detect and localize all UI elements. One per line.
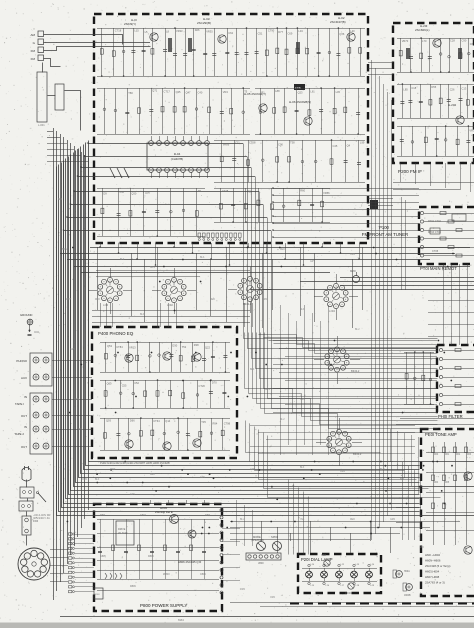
ferrite bead FTB marker — [294, 84, 305, 90]
svg-text:CT18: CT18 — [115, 29, 122, 33]
svg-text:C803: C803 — [140, 514, 146, 517]
svg-text:GRN: GRN — [250, 469, 255, 471]
wire main horizontal bus group — [89, 141, 474, 462]
svg-text:J-I0I: J-I0I — [103, 303, 108, 307]
svg-text:L56: L56 — [120, 190, 125, 194]
svg-text:H80I: H80I — [321, 554, 326, 557]
wire AC plug to filters — [26, 480, 28, 488]
wire balun feed — [42, 63, 44, 73]
lamp L204 — [351, 571, 358, 578]
svg-text:D26: D26 — [195, 28, 200, 32]
connector pads row P100 bottom — [198, 233, 201, 238]
svg-text:BRN: BRN — [265, 389, 270, 391]
svg-text:AM: AM — [31, 33, 36, 37]
ground terminal upper — [27, 319, 33, 325]
svg-text:RT03 CT03: RT03 CT03 — [428, 231, 441, 234]
svg-text:GROUND: GROUND — [20, 313, 32, 317]
transistor H-402 circle — [163, 352, 171, 360]
FM IF first component row — [397, 38, 474, 40]
svg-text:J800C: J800C — [345, 592, 352, 595]
svg-text:R63: R63 — [467, 454, 472, 456]
svg-text:GRY: GRY — [70, 349, 75, 351]
svg-text:Q30: Q30 — [131, 191, 136, 195]
svg-text:GRY: GRY — [130, 494, 135, 496]
transistor H-405 circle — [163, 442, 171, 450]
tuner bottom-left component row — [97, 188, 205, 190]
svg-text:BLK: BLK — [200, 257, 205, 259]
diode bridge D801 — [105, 573, 107, 576]
svg-text:BLK: BLK — [400, 479, 405, 481]
wire PT01 to PH01 verticals — [443, 264, 445, 345]
svg-text:BLU: BLU — [240, 519, 245, 521]
transistor H806 2SC945 circle — [188, 530, 196, 538]
svg-text:T38: T38 — [290, 141, 295, 145]
wire staircase mesh upper middle — [245, 333, 438, 413]
transistor H-202 circle — [456, 116, 464, 124]
svg-text:CT84: CT84 — [116, 345, 123, 349]
svg-text:J-I04: J-I04 — [329, 309, 335, 313]
capacitor C801 big — [94, 588, 103, 599]
dark component L-07 — [370, 200, 378, 209]
svg-text:IN: IN — [24, 395, 27, 399]
lamp L203 — [336, 571, 343, 578]
svg-text:2SD330 Del E: 2SD330 Del E — [155, 510, 173, 514]
phono eq upper component row — [100, 342, 230, 344]
FM IF third component row — [397, 126, 474, 128]
svg-text:R60: R60 — [434, 454, 439, 456]
svg-text:M20I: M20I — [350, 269, 356, 273]
fuse F601 — [22, 516, 31, 535]
antenna terminal FM2 — [38, 55, 44, 61]
antenna terminal AM — [38, 31, 44, 37]
svg-text:TAPE 2: TAPE 2 — [14, 432, 24, 436]
svg-text:T80: T80 — [128, 91, 133, 95]
wire bus corners to lamp board — [288, 480, 290, 555]
svg-text:C805: C805 — [100, 555, 106, 558]
svg-text:L20: L20 — [350, 29, 355, 33]
wire bus middle vertical group — [244, 144, 438, 339]
transistor H605 circle — [464, 546, 472, 554]
block PH01 FILTER dashed border — [437, 345, 474, 412]
svg-text:BLU: BLU — [380, 469, 385, 471]
block P400 PHONO EQ dashed border — [92, 327, 237, 458]
svg-text:2SKI9(Y): 2SKI9(Y) — [124, 22, 136, 26]
svg-text:BLK: BLK — [250, 369, 255, 371]
svg-text:BLK: BLK — [120, 259, 125, 261]
svg-text:VR37: VR37 — [469, 128, 474, 132]
wire ring leads — [88, 290, 97, 292]
svg-text:FM: FM — [31, 49, 36, 53]
connector ring J104 — [324, 283, 348, 308]
svg-text:L99: L99 — [360, 141, 365, 145]
svg-text:Q23: Q23 — [298, 91, 303, 95]
PE01 component columns — [433, 442, 435, 545]
line filter L601 — [20, 487, 34, 498]
svg-text:L15: L15 — [134, 28, 139, 32]
connector ring J101 — [98, 277, 122, 302]
block P100 FM FRONT AM TUNER dashed border — [94, 14, 368, 243]
transistor H-01 2SK19 circle — [150, 33, 158, 41]
svg-text:GRY: GRY — [200, 477, 205, 479]
filter input components — [404, 352, 434, 354]
wire bottom long rule — [60, 616, 474, 618]
wire feeds left of PE01 — [402, 462, 404, 540]
svg-text:R80I: R80I — [100, 514, 105, 517]
wire rails bottom middle — [230, 521, 460, 523]
svg-text:T35: T35 — [201, 420, 206, 424]
PT01 small rects — [452, 214, 466, 221]
transistor H-406 circle — [193, 439, 201, 447]
block P201 DIAL LAMP dashed border — [298, 554, 381, 593]
svg-text:L85: L85 — [403, 88, 408, 92]
power switch S601 — [38, 493, 46, 502]
svg-text:CT05: CT05 — [432, 250, 439, 253]
IF transformer T103 coil — [296, 42, 298, 54]
svg-text:H-06 2SC828(S): H-06 2SC828(S) — [289, 100, 311, 104]
svg-text:T52: T52 — [182, 345, 187, 349]
wire feeds to PH01 — [273, 340, 437, 342]
svg-text:GRN: GRN — [262, 299, 267, 301]
svg-text:OUT: OUT — [21, 445, 27, 449]
svg-text:C0I2: C0I2 — [34, 332, 40, 334]
block P200 FM IF dashed border — [393, 23, 474, 163]
wire pads to P800 — [75, 534, 94, 536]
jack J900B circle — [406, 584, 413, 591]
mode switch circle — [257, 542, 266, 551]
svg-text:R62: R62 — [456, 454, 461, 456]
svg-text:R1: R1 — [261, 90, 265, 94]
svg-text:VR70: VR70 — [402, 39, 409, 43]
jack TAPE1 OUT — [33, 412, 39, 418]
svg-text:GRN: GRN — [74, 399, 79, 401]
svg-text:2SC29I(B): 2SC29I(B) — [197, 21, 211, 25]
svg-text:2SCI328 (5 or Tar(p): 2SCI328 (5 or Tar(p) — [425, 564, 451, 568]
svg-text:WHT: WHT — [110, 469, 116, 471]
svg-text:6963: 6963 — [178, 618, 184, 622]
jack PHONO — [33, 357, 39, 363]
IC H-04 bottom pin circles — [149, 168, 154, 173]
svg-text:CT28: CT28 — [222, 189, 229, 193]
connector strip P800 right edge — [220, 509, 223, 512]
jack AUX — [33, 374, 39, 380]
transistor H601 circle — [464, 472, 472, 480]
phono eq middle row — [100, 380, 230, 382]
svg-text:P400 PHONO EQ: P400 PHONO EQ — [98, 331, 134, 336]
svg-text:C90: C90 — [278, 143, 283, 147]
balun transformer L001 — [37, 72, 47, 122]
variable capacitor arrows — [110, 168, 115, 178]
svg-text:Q14: Q14 — [165, 419, 170, 423]
svg-text:H607,H608: H607,H608 — [425, 575, 440, 579]
jack TAPE2 IN — [33, 426, 39, 432]
svg-text:RED: RED — [150, 474, 155, 476]
transistor H-06 2SC828 circle — [304, 117, 312, 125]
svg-text:(CH4II7B): (CH4II7B) — [171, 157, 184, 161]
transistor H-201 2SC829 circle — [433, 39, 441, 47]
transistor H-401 circle — [125, 354, 133, 362]
wire extra rails below tuner — [96, 270, 250, 272]
wire bottom dashed segment — [290, 603, 474, 605]
svg-text:D9: D9 — [103, 192, 107, 196]
wire P200 to PT01 verticals — [400, 163, 402, 182]
svg-text:C13: C13 — [462, 86, 467, 90]
svg-text:R805: R805 — [148, 555, 154, 558]
svg-text:Q93: Q93 — [106, 419, 111, 423]
svg-text:C28: C28 — [450, 39, 455, 43]
svg-text:C51: C51 — [258, 31, 263, 35]
svg-text:RT02 CT02: RT02 CT02 — [428, 220, 441, 223]
svg-text:P800 POWER SUPPLY: P800 POWER SUPPLY — [140, 603, 187, 608]
svg-text:OUT: OUT — [21, 414, 27, 418]
wire verticals bottom middle — [261, 521, 263, 541]
svg-text:Q22: Q22 — [205, 345, 210, 349]
block PT01 MAIN REMOTE dashed border — [419, 207, 474, 264]
wire antenna FM2 — [44, 59, 61, 67]
svg-text:AUX: AUX — [21, 376, 27, 380]
svg-text:DRIVE: DRIVE — [118, 528, 126, 531]
connector pad column left of P800 — [69, 533, 72, 535]
svg-text:RED: RED — [280, 249, 285, 251]
phono eq lower component row — [100, 418, 230, 420]
IF coil T201 — [406, 48, 408, 59]
svg-text:R94: R94 — [213, 422, 218, 426]
IF transformer T101 coil — [168, 38, 170, 52]
svg-text:FM: FM — [31, 57, 36, 61]
svg-text:H806 2SC945 Q R: H806 2SC945 Q R — [178, 560, 201, 564]
svg-text:R61: R61 — [445, 454, 450, 456]
svg-text:L34: L34 — [298, 29, 303, 33]
jack TAPE2 OUT — [33, 443, 39, 449]
power supply rails — [97, 519, 219, 521]
PT01 connector pads — [420, 211, 423, 214]
svg-text:CT20: CT20 — [199, 384, 206, 388]
PH01 connector pads — [439, 348, 442, 351]
wire P200 to PT01 rails — [393, 182, 474, 184]
svg-text:R60: R60 — [300, 189, 305, 193]
svg-text:ORN: ORN — [340, 471, 345, 473]
wire PT01 to PH01 rails — [428, 300, 474, 302]
wire rails above PE01 gap — [400, 418, 474, 420]
svg-text:C809: C809 — [200, 573, 206, 576]
wire bus left vertical group — [53, 128, 55, 600]
svg-text:D77: D77 — [278, 30, 283, 34]
svg-text:PE0I TONE AMP: PE0I TONE AMP — [425, 432, 457, 437]
junction dots scattered — [67, 247, 470, 535]
transistor H-03 2SC291B circle — [218, 35, 226, 43]
wire rails below tuner — [90, 247, 470, 249]
svg-text:ORN: ORN — [350, 254, 355, 256]
svg-text:RED: RED — [95, 299, 100, 301]
tuner bottom-right component row — [214, 188, 330, 190]
wire P800 outputs — [222, 515, 240, 517]
svg-text:Q71: Q71 — [152, 88, 157, 92]
svg-text:ORN: ORN — [240, 589, 245, 591]
svg-text:ZD80I: ZD80I — [163, 573, 170, 576]
scanner edge band — [0, 623, 474, 628]
svg-text:CT68: CT68 — [249, 141, 256, 145]
transistor H-403 circle — [193, 353, 201, 361]
svg-text:VIO: VIO — [78, 429, 82, 431]
wire bottom right rails — [230, 602, 474, 604]
svg-text:SPKR: SPKR — [271, 535, 278, 539]
wire mesh verticals center — [280, 305, 282, 455]
IF transformer T102 coil — [188, 38, 190, 52]
svg-text:CT64: CT64 — [153, 419, 160, 423]
antenna terminal G — [38, 39, 44, 45]
IC H-04 top pin circles — [149, 141, 154, 146]
svg-text:C45: C45 — [333, 144, 338, 148]
wire left of PT01 verticals — [401, 197, 403, 290]
svg-text:H-04: H-04 — [174, 152, 181, 156]
svg-text:IN: IN — [24, 425, 27, 429]
svg-text:VR56: VR56 — [323, 191, 330, 195]
svg-text:BLK: BLK — [58, 199, 63, 201]
line filter L602 — [19, 501, 33, 511]
speaker switch circle — [273, 542, 282, 551]
svg-text:BLU: BLU — [355, 329, 360, 331]
connector ring J103 — [238, 276, 262, 301]
svg-text:R809: R809 — [130, 585, 136, 588]
svg-text:C6: C6 — [470, 42, 474, 46]
wire lamp rail bottom — [302, 581, 377, 583]
power transformer connector big ring — [18, 548, 50, 580]
transistor H-404 circle — [125, 440, 133, 448]
wire verticals crossing ring band — [97, 247, 99, 310]
wire rings to P400 drop leads — [100, 303, 102, 327]
jack TAPE1 IN — [33, 396, 39, 402]
PE01 rails — [426, 452, 474, 454]
wire antenna G to tuner — [44, 42, 151, 44]
wire rails below rings — [92, 310, 250, 312]
FM IF second component row — [397, 84, 474, 86]
wire antenna FM to tuner — [44, 47, 151, 51]
svg-text:Q53: Q53 — [107, 344, 112, 348]
PE01 resistors — [432, 447, 435, 453]
jack J800C circle — [348, 583, 354, 589]
svg-text:C40: C40 — [198, 91, 203, 95]
jack group box phono aux — [30, 353, 52, 386]
svg-text:H60N~H606: H60N~H606 — [425, 559, 441, 563]
svg-text:WHT: WHT — [66, 299, 72, 301]
antenna terminal FM1 — [38, 47, 44, 53]
tuner second component row — [97, 88, 250, 90]
svg-text:BLU: BLU — [280, 419, 285, 421]
svg-text:J900B: J900B — [404, 595, 411, 597]
svg-text:H603,H604: H603,H604 — [425, 570, 440, 574]
svg-text:CT17: CT17 — [164, 89, 171, 93]
svg-text:D70: D70 — [212, 381, 217, 385]
svg-text:R64: R64 — [434, 482, 439, 484]
svg-text:YEL: YEL — [300, 519, 305, 521]
svg-text:J-I02: J-I02 — [167, 303, 173, 307]
wire feeds to PT01 — [273, 188, 419, 190]
transistor H-02 2SC1047 circle — [347, 33, 355, 41]
svg-text:H00A: H00A — [404, 570, 410, 573]
svg-text:C11: C11 — [235, 140, 240, 144]
svg-text:P20I DIAL LAMP: P20I DIAL LAMP — [301, 557, 333, 562]
svg-text:R65: R65 — [445, 482, 450, 484]
svg-text:L-001: L-001 — [38, 123, 45, 127]
regulator sub box — [116, 521, 134, 545]
power supply drops — [100, 519, 102, 579]
wire bus drops bottom middle — [236, 500, 238, 546]
svg-text:2SC829(L): 2SC829(L) — [415, 28, 430, 32]
svg-text:D66: D66 — [130, 418, 135, 422]
IF coil T202 — [458, 48, 460, 59]
tuner RF section component row — [97, 28, 365, 30]
svg-text:Q36: Q36 — [145, 190, 150, 194]
connector ring J106 — [327, 429, 351, 454]
svg-text:C69: C69 — [288, 32, 293, 36]
svg-text:P100: P100 — [379, 225, 389, 230]
lamp L202 — [321, 571, 328, 578]
svg-text:L61: L61 — [310, 90, 315, 94]
jack group box tape — [30, 393, 52, 454]
svg-text:FM FRONT AM TUNER: FM FRONT AM TUNER — [362, 232, 408, 237]
transistor H-05 2SC644 circle — [259, 104, 267, 112]
svg-text:Q4: Q4 — [347, 144, 351, 148]
connector ring J105 — [325, 347, 349, 372]
svg-text:Q25: Q25 — [176, 90, 181, 94]
jack J800B circle — [324, 560, 330, 566]
svg-text:FTB: FTB — [295, 86, 301, 90]
wire bus middle lower verticals — [246, 421, 381, 453]
transistor H805 2SD330 circle — [170, 515, 179, 524]
wire mesh horizontals center low — [250, 425, 415, 427]
tuner right mid component row — [255, 88, 365, 90]
svg-text:TAPE I: TAPE I — [15, 402, 24, 406]
meter M201 circle — [353, 276, 360, 283]
lamp L205 — [366, 571, 373, 578]
wire feed lines tuner to bus — [88, 143, 243, 145]
svg-text:H60I ~H602: H60I ~H602 — [425, 553, 440, 557]
wire bus drops to P800 top — [150, 500, 152, 504]
wire staircase mesh around ring J105 — [259, 335, 438, 345]
svg-text:VR35: VR35 — [206, 29, 213, 33]
svg-text:GRY: GRY — [310, 261, 315, 263]
svg-text:C55: C55 — [122, 384, 127, 388]
wire antenna AM to tuner — [44, 35, 123, 45]
svg-text:D80I: D80I — [205, 514, 210, 517]
svg-text:BRN: BRN — [62, 249, 67, 251]
wire stubs tuner bottom to rails — [100, 243, 102, 247]
svg-text:BLK: BLK — [140, 314, 145, 316]
svg-text:VIO: VIO — [420, 547, 424, 549]
svg-text:D30: D30 — [172, 343, 177, 347]
wire transformer leads — [50, 549, 68, 551]
svg-text:P200 FM IF: P200 FM IF — [398, 169, 422, 174]
svg-text:C80I: C80I — [95, 594, 100, 596]
svg-text:R38: R38 — [194, 343, 199, 347]
svg-text:C62: C62 — [228, 31, 233, 35]
svg-text:GRN: GRN — [300, 399, 305, 401]
svg-text:C90: C90 — [462, 39, 467, 43]
wire ring J106 leads — [339, 418, 341, 429]
svg-text:BRN: BRN — [150, 267, 155, 269]
svg-text:VR4: VR4 — [223, 90, 229, 94]
svg-text:CT98: CT98 — [224, 421, 231, 425]
svg-text:VR33: VR33 — [176, 29, 183, 33]
svg-text:BLK: BLK — [300, 467, 305, 469]
wire bus left top stubs — [47, 131, 53, 133]
block PE01 TONE AMP dashed border — [421, 429, 474, 596]
svg-text:L70: L70 — [422, 39, 427, 43]
wire lamp rail top — [302, 568, 377, 570]
svg-text:RED: RED — [350, 519, 355, 521]
svg-text:GRN: GRN — [390, 519, 395, 521]
capacitor C002 node — [29, 330, 31, 332]
svg-text:C26: C26 — [450, 87, 455, 91]
